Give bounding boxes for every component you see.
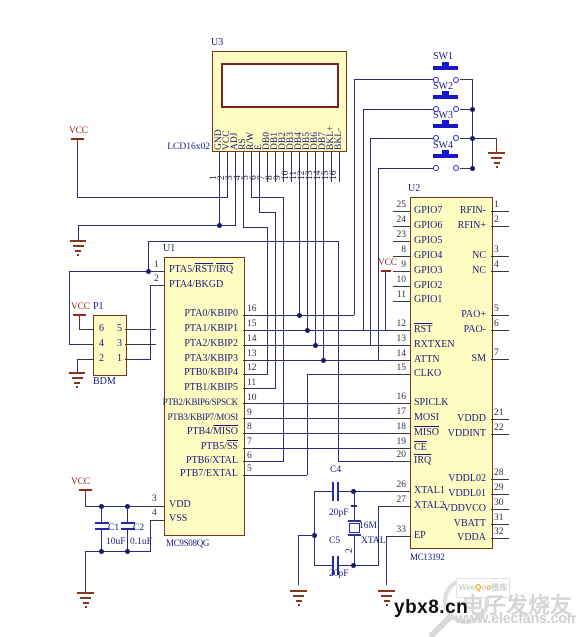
wire RST net horizontal y241: [148, 241, 339, 242]
P1 pin number 5: [117, 323, 122, 334]
wire U3 pin8 DB1 stub: [275, 152, 276, 182]
switch SW4 label: [433, 140, 453, 151]
wire VCC to VDD rail: [85, 495, 86, 506]
U1 pin12 name PTB0/KBIP4: [150, 367, 238, 378]
ground symbol crystal left: [290, 590, 307, 592]
wire U1 pin6 row XTAL to R/W line: [243, 461, 284, 462]
wire U3 pin stub: [275, 152, 276, 162]
U3 pin name DB0: [262, 132, 272, 150]
label U3: [211, 37, 223, 48]
U3 pin name DB4: [294, 132, 304, 150]
switch SW4 contacts: [433, 165, 439, 171]
wire U1 pin16 row PTA0: [243, 315, 354, 316]
VCC symbol P1 stub: [79, 316, 80, 321]
VCC symbol top-left bar: [71, 138, 84, 140]
switch SW3 label: [433, 110, 453, 121]
wire SW4 drop to PTA3 row: [378, 168, 379, 360]
node junction DB6 on PTA2 row: [313, 343, 318, 348]
U3 pin name BKL+: [326, 126, 336, 150]
wire U1 pin11 row PTB1 to E: [243, 388, 276, 389]
wire E vertical to PTB1 row: [275, 212, 276, 389]
wire U1 pin2 stub: [150, 285, 164, 286]
wire U1 pin stub: [243, 475, 257, 476]
label MC13192: [410, 552, 444, 563]
wire U3 pin14 DB7 to PTA3 row: [323, 152, 324, 360]
crystal pin number 2 rotated: [346, 548, 355, 553]
wire SW3 right to collector: [460, 138, 473, 139]
label P1: [93, 301, 104, 312]
label MC9S08QG: [166, 538, 209, 549]
wire U1 pin12 row PTB0 to RS: [243, 374, 268, 375]
node junction DB5 on PTA1 row: [305, 328, 310, 333]
switch SW3 button bar: [433, 124, 458, 128]
switch SW1 button bar: [433, 66, 458, 70]
label LCD16x02: [160, 142, 210, 153]
U2 left pin names: [414, 205, 442, 216]
wire SW2 left: [363, 109, 433, 110]
U2 right pin names: [420, 205, 486, 216]
node junction DB4 on PTA0 row: [297, 313, 302, 318]
U1 pin11 name PTB1/KBIP5: [150, 382, 238, 393]
crystal Y1 bottom plate: [348, 534, 361, 536]
wire ground rail bottom-left: [85, 551, 151, 552]
label C2: [133, 523, 144, 534]
label C5 value 20pF: [329, 569, 349, 580]
U1 pin number 4: [152, 508, 157, 518]
wire U3 pin13 DB6 to PTA2 row: [315, 152, 316, 345]
wire U2 pin stub: [394, 330, 410, 331]
wire U3 pin stub: [227, 152, 228, 162]
wire U1 pin stub: [150, 506, 164, 507]
wire VCC vertical down: [77, 145, 78, 197]
wire U1 pin stub: [243, 418, 257, 419]
wire P1 pin6 stub: [79, 329, 94, 330]
ground symbol switches: [488, 152, 505, 154]
wire XTAL2 drop vertical: [378, 506, 379, 566]
wire SW3 left: [370, 138, 433, 139]
wire SW3 drop to PTA2 row: [370, 138, 371, 345]
wire U3 pin16 BKL- stub: [339, 152, 340, 182]
switch SW3 contacts: [433, 135, 439, 141]
wire SW1 right to collector: [460, 79, 473, 80]
wire U3 pin stub: [323, 152, 324, 162]
U3 pin name DB1: [270, 132, 280, 150]
capacitor C1 plates: [95, 522, 109, 524]
switch SW2 button bar: [433, 95, 458, 99]
U3 pin number 16: [330, 171, 339, 181]
wire SW4 left: [378, 168, 433, 169]
wire U1 pin1 RST horizontal: [69, 271, 164, 272]
U3 pin number 2: [218, 175, 227, 180]
node junction RST net at x149: [146, 269, 151, 274]
wire VSS drop to ground rail: [150, 520, 151, 552]
U3 pin number 12: [298, 171, 307, 181]
wire U2 pin stub: [394, 433, 410, 434]
P1 pin number 3: [117, 338, 122, 349]
wire GND rail to U3 pins 1,3: [78, 225, 236, 226]
U1 pin number 1: [154, 260, 159, 270]
crystal Y1 top plate: [348, 520, 361, 522]
U3 pin name GND: [214, 129, 224, 150]
U3 pin name DB2: [278, 132, 288, 150]
wire U1 pin stub: [243, 360, 257, 361]
label 16M: [359, 521, 377, 532]
label C5: [329, 536, 340, 547]
VCC symbol top-left text: [69, 126, 88, 136]
label BDM: [93, 376, 116, 387]
VCC symbol P1 bar: [73, 314, 86, 316]
wire U3 pin stub: [299, 152, 300, 162]
U3 pin number 4: [234, 175, 243, 180]
VCC symbol bottom-left bar: [79, 489, 92, 491]
wire U2 pin stub: [394, 461, 410, 462]
wire U1 pin13 row PTA3 to U2 ATTN: [243, 360, 410, 361]
wire EP ground drop: [386, 536, 387, 585]
wire U3 pin7 DB0 stub: [267, 152, 268, 182]
node junction C2 on VDD rail: [125, 504, 130, 509]
ground symbol P1: [69, 372, 85, 374]
capacitor C1 top lead: [101, 506, 102, 523]
watermark elecfans chinese: [462, 588, 576, 620]
node junction SW4 collector: [470, 166, 475, 171]
U3 LCD screen window: [221, 63, 339, 108]
U1 pin number 7: [247, 437, 252, 447]
wire U1 pin stub: [243, 433, 257, 434]
wire U1 pin stub: [243, 345, 257, 346]
U2 right pin stubs: [491, 211, 509, 212]
U3 pin number 1: [210, 175, 219, 180]
wire EP row: [386, 536, 410, 537]
wire U3 pin4 RS down: [243, 152, 244, 228]
VCC symbol P1 text: [71, 302, 90, 312]
node junction SW2 collector: [470, 107, 475, 112]
capacitor C2 plates: [121, 522, 135, 524]
wire U3 pin stub: [331, 152, 332, 162]
wire C5 row: [314, 565, 333, 566]
node junction U3 pin1 on GND rail: [217, 223, 222, 228]
wire U1 pin stub: [243, 461, 257, 462]
wire SW1 drop to PTA0 row: [354, 79, 355, 315]
wire RS jog horizontal: [243, 227, 268, 228]
wire ground rail drop bottom-left: [85, 551, 86, 592]
wire U1 pin7 row SS to U2 CE: [243, 448, 410, 449]
U1 pin number 5: [247, 464, 252, 474]
switch SW1 contacts: [433, 77, 439, 83]
wire U3 pin stub: [307, 152, 308, 162]
wire U3 pin stub: [291, 152, 292, 162]
U1 pin16 name PTA0/KBIP0: [150, 308, 238, 319]
U3 pin number 6: [250, 175, 259, 180]
U3 pin name VCC: [222, 130, 232, 150]
watermark ybx8.cn: [394, 597, 468, 619]
VCC symbol bottom-left text: [71, 477, 90, 487]
wire U1 pin stub: [243, 448, 257, 449]
capacitor C4 plates: [332, 482, 334, 501]
U3 pin number 13: [306, 171, 315, 181]
wire switch collector vertical: [472, 79, 473, 169]
node junction crystal top on XTAL1 row: [351, 489, 356, 494]
U1 pin number 3: [152, 494, 157, 504]
wire SW4 right to collector: [460, 168, 473, 169]
capacitor C2 bottom lead: [127, 530, 128, 552]
U3 pin name DB6: [310, 132, 320, 150]
wire U3 pin5 R/W down: [251, 152, 252, 198]
wire U3 pin stub: [235, 152, 236, 162]
wire U3 pin15 BKL+ stub: [331, 152, 332, 182]
label C4: [330, 465, 341, 476]
U1 pin6 name PTB6/XTAL: [150, 455, 238, 466]
watermark elecfans url: [455, 611, 576, 627]
VCC symbol top-left stub: [77, 140, 78, 145]
VCC symbol U2 text: [378, 258, 397, 268]
wire P1 pin stub: [80, 344, 93, 345]
U2 right pin numbers: [494, 200, 499, 210]
wire R/W vertical to PTB6 row: [283, 197, 284, 462]
wire U3 pin stub: [283, 152, 284, 162]
wire U3 pin stub: [267, 152, 268, 162]
wire P1 pin stub: [80, 359, 93, 360]
U1 pin14 name PTA2/KBIP2: [150, 338, 238, 349]
wire C5 right to XTAL2 drop: [339, 565, 379, 566]
wire U3 pin stub: [251, 152, 252, 162]
wire RS vertical to PTB0 row: [267, 227, 268, 374]
U1 pin3 name VDD: [169, 499, 191, 510]
U1 pin number 16: [247, 304, 257, 314]
node junction crystal bottom on C5 row: [351, 563, 356, 568]
wire U2 pin stub: [394, 536, 410, 537]
U3 pin number 10: [282, 171, 291, 181]
capacitor C2 top lead: [127, 506, 128, 523]
P1 pin number 4: [99, 338, 104, 349]
wire U3 pin1 GND down: [219, 152, 220, 225]
wire VDD rail: [85, 506, 164, 507]
node junction ground branch on left vertical: [312, 533, 317, 538]
wire RST/IRQ vertical x338: [338, 241, 339, 462]
U1 pin number 8: [247, 422, 252, 432]
crystal Y1 body: [349, 523, 360, 533]
wire VCC rail to U3 pin2: [77, 197, 228, 198]
wire P1 pin1 stub: [125, 359, 139, 360]
wire U1 pin stub: [243, 403, 257, 404]
wire P1 pin1 horizontal: [125, 359, 151, 360]
switch SW2 contacts: [433, 106, 439, 112]
U3 pin number 15: [322, 171, 331, 181]
U1 pin5 name PTB7/EXTAL: [150, 468, 238, 479]
U3 pin number 14: [314, 171, 323, 181]
wire SW2 drop to PTA1 row: [363, 109, 364, 330]
U1 pin number 15: [247, 319, 257, 329]
wire U3 pin stub: [243, 152, 244, 162]
wire U1 pin stub: [150, 285, 164, 286]
ground symbol top-left: [70, 240, 86, 242]
wire U1 pin15 row PTA1 to U2 RST: [243, 330, 410, 331]
U3 pin name BKL-: [334, 128, 344, 150]
wire P1 pin2 stub: [77, 359, 94, 360]
connector P1 BDM body: [93, 315, 127, 376]
capacitor C4 left wire: [314, 491, 333, 492]
U3 pin number 3: [226, 175, 235, 180]
wire U1 pin2 to P1 pin1 vertical: [150, 285, 151, 359]
U1 pin2 name PTA4/BKGD: [169, 279, 223, 290]
watermark magnifier icon: [420, 575, 495, 637]
U3 pin number 5: [242, 175, 251, 180]
U1 pin15 name PTA1/KBIP1: [150, 323, 238, 334]
switch SW1 label: [433, 51, 453, 62]
U3 pin number 11: [290, 171, 299, 180]
U2 left pin stubs: [393, 211, 410, 212]
U3 pin name DB5: [302, 132, 312, 150]
P1 pin number 6: [99, 323, 104, 334]
ground symbol EP: [378, 590, 395, 592]
wire P1 pin2 ground drop: [77, 359, 78, 372]
wire P1 pin3 stub: [125, 344, 156, 345]
U3 pin name R/W: [246, 132, 256, 150]
node junction DB7 on PTA3 row: [321, 358, 326, 363]
wire U1 pin stub: [243, 315, 257, 316]
U1 pin number 2: [154, 274, 159, 284]
U3 pin name ADJ: [230, 133, 240, 150]
U1 pin8 name PTB4/MISO: [150, 426, 238, 437]
label U2: [408, 183, 420, 194]
wire U3 pin11 DB4 to PTA0 row: [299, 152, 300, 315]
wire U1 pin1 to P1 pin4 vertical: [69, 271, 70, 345]
wire U1 pin stub: [150, 520, 164, 521]
label U1: [163, 243, 175, 254]
wire P1 pin5 stub: [125, 329, 156, 330]
wire U3 pin stub: [315, 152, 316, 162]
U1 pin10 name PTB2/KBIP6/SPSCK: [160, 397, 238, 408]
wire U1 pin stub: [243, 388, 257, 389]
node junction C1 on ground rail: [99, 549, 104, 554]
wire XTAL2 row: [378, 506, 410, 507]
wire ground drop switches: [496, 138, 497, 152]
wire RST net vertical upper: [148, 241, 149, 271]
VCC symbol U2 bar: [381, 270, 391, 272]
wire U1 pin stub: [150, 271, 164, 272]
wire U2 pin stub: [394, 374, 410, 375]
wire IRQ row to U2 pin20: [338, 461, 410, 462]
label C4 value 20pF: [329, 508, 349, 519]
wire U2 pin stub: [394, 360, 410, 361]
node junction C2 on ground rail: [125, 549, 130, 554]
U3 pin name RS: [238, 138, 248, 150]
wire U3 pin stub: [259, 152, 260, 162]
wire crystal top lead: [354, 491, 355, 520]
node junction C1 on VDD rail: [99, 504, 104, 509]
U2 left pin numbers: [392, 200, 406, 210]
watermark WeeQoo box: [456, 578, 510, 598]
wire XTAL1 row: [338, 491, 410, 492]
wire SW1 left: [354, 79, 433, 80]
wire U3 pin6 E down: [259, 152, 260, 213]
wire CLKO horizontal to U2 pin15: [307, 374, 410, 375]
wire U3 pin2 VCC down: [227, 152, 228, 197]
wire U2 pin stub: [394, 418, 410, 419]
wire P1 pin4 horizontal: [69, 344, 94, 345]
wire U3 pin stub: [339, 152, 340, 162]
capacitor C5 plates: [332, 556, 334, 575]
U1 pin7 name PTB5/SS: [150, 441, 238, 452]
wire R/W jog horizontal: [251, 197, 284, 198]
IC U1 MC9S08QG body: [164, 257, 245, 536]
VCC symbol bottom-left stub: [85, 491, 86, 495]
wire U3 pin stub: [219, 152, 220, 162]
U3 pin number 7: [258, 175, 267, 180]
P1 pin number 1: [117, 353, 122, 364]
U1 pin1 name PTA5/RST/IRQ: [169, 264, 233, 275]
wire E jog horizontal: [259, 212, 276, 213]
wire ground branch horizontal: [298, 535, 315, 536]
U3 pin number 9: [274, 175, 283, 180]
wire EXTAL vertical to CLKO: [307, 374, 308, 475]
wire ground branch drop: [298, 535, 299, 585]
U1 pin number 11: [247, 378, 256, 388]
U3 pin number 8: [266, 175, 275, 180]
wire U1 pin stub: [243, 330, 257, 331]
U3 pin name E: [254, 144, 264, 150]
U1 pin number 12: [247, 363, 257, 373]
node junction SW3 collector: [470, 136, 475, 141]
U3 pin name DB3: [286, 132, 296, 150]
U1 pin13 name PTA3/KBIP3: [150, 353, 238, 364]
wire P1 pin stub: [80, 329, 93, 330]
U1 pin number 14: [247, 334, 257, 344]
wire U3 pin12 DB5 to PTA1 row: [307, 152, 308, 330]
U1 pin number 13: [247, 349, 257, 359]
IC U2 MC13192 body: [410, 197, 493, 549]
switch SW2 label: [433, 81, 453, 92]
wire U1 pin stub: [243, 374, 257, 375]
wire U1 pin14 row PTA2 to U2 RXTXEN: [243, 345, 410, 346]
wire U3 pin9 DB2 stub: [283, 152, 284, 182]
U1 pin number 6: [247, 451, 252, 461]
wire VCC to P1 pin6: [79, 321, 80, 329]
U1 pin number 10: [247, 393, 257, 403]
U3 pin name DB7: [318, 132, 328, 150]
wire U1 VSS stub: [150, 520, 164, 521]
U1 pin9 name PTB3/KBIP7/MOSI: [160, 412, 238, 423]
IC U3 LCD16x02 module body: [212, 51, 347, 152]
wire U2 pin stub: [394, 506, 410, 507]
U1 pin4 name VSS: [169, 513, 187, 524]
wire U3 pin3 ADJ down: [235, 152, 236, 225]
wire GND rail drop: [78, 225, 79, 240]
P1 pin number 2: [99, 353, 104, 364]
U1 pin number 9: [247, 408, 252, 418]
ground symbol bottom-left: [77, 592, 94, 594]
wire U2 pin stub: [394, 403, 410, 404]
wire U2 pin stub: [394, 491, 410, 492]
wire U2 pin stub: [394, 345, 410, 346]
wire VCC U2 drop to RST row: [385, 272, 386, 330]
wire U2 pin stub: [394, 448, 410, 449]
wire SW2 right to collector: [460, 109, 473, 110]
wire U1 pin9 row MOSI to U2 MOSI: [243, 418, 410, 419]
wire U3 pin10 DB3 stub: [291, 152, 292, 182]
label C2 value 0.1uF: [130, 537, 152, 548]
crystal Y1 pin1 tick: [351, 505, 357, 507]
switch SW4 button bar: [433, 154, 458, 158]
wire C4 C5 left vertical: [314, 491, 315, 566]
capacitor C1 bottom lead: [101, 530, 102, 552]
wire U1 pin8 row MISO to U2 MISO: [243, 433, 410, 434]
wire collector to ground: [472, 138, 496, 139]
label XTAL: [361, 536, 386, 547]
wire U1 pin10 row SPSCK to U2 SPICLK: [243, 403, 410, 404]
label C1 value 10uF: [106, 537, 126, 548]
wire crystal bottom lead: [354, 536, 355, 566]
wire U1 pin5 row EXTAL: [243, 475, 307, 476]
